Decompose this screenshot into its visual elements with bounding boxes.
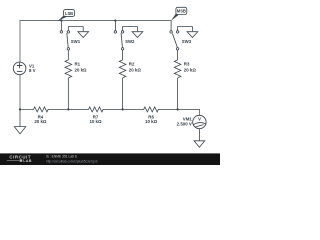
wire R4 to node B — [48, 108, 68, 110]
svg-text:LSB: LSB — [65, 11, 73, 16]
node flag LSB — [58, 10, 75, 21]
svg-text:rb : ENME 351 Lab 6: rb : ENME 351 Lab 6 — [46, 155, 77, 159]
V1 labels — [29, 63, 36, 73]
svg-text:20 kΩ: 20 kΩ — [75, 68, 88, 73]
R2 labels — [129, 62, 142, 73]
switch SW1 — [60, 21, 88, 60]
svg-text:SW2: SW2 — [125, 39, 135, 44]
footer bar — [0, 153, 220, 165]
ground (left) — [14, 109, 25, 133]
switch SW2 — [114, 21, 143, 60]
R6 labels — [145, 114, 158, 124]
svg-text:8 V: 8 V — [29, 68, 36, 73]
resistor R1 — [65, 60, 72, 110]
wire top rail — [20, 20, 171, 22]
wire V1 top — [19, 21, 21, 63]
VM1 labels — [177, 117, 193, 127]
ground (under VM1) — [194, 129, 205, 148]
svg-text:LAB: LAB — [23, 159, 32, 163]
resistor R4 — [34, 107, 49, 112]
wire R7 to node C — [103, 108, 122, 110]
wire R6 to node D — [158, 108, 177, 110]
junction dot (rail / SW2) — [114, 19, 116, 21]
voltmeter VM1 — [193, 115, 206, 128]
svg-text:2.500 V: 2.500 V — [177, 121, 192, 126]
R1 labels — [75, 62, 88, 73]
switch SW3 — [170, 21, 198, 60]
svg-text:SW1: SW1 — [71, 39, 81, 44]
svg-text:V: V — [198, 116, 201, 121]
wire V1 bottom — [19, 75, 21, 110]
svg-text:20 kΩ: 20 kΩ — [184, 68, 197, 73]
junction dot node D (bottom rail / R3) — [176, 108, 178, 110]
svg-text:R3: R3 — [184, 62, 190, 67]
R7 labels — [89, 114, 102, 124]
svg-text:SW3: SW3 — [182, 39, 192, 44]
svg-text:R2: R2 — [129, 62, 135, 67]
junction dot (bottom rail / V1) — [19, 108, 21, 110]
junction dot node A (rail / SW1) — [60, 19, 62, 21]
voltage source V1 — [13, 62, 26, 75]
svg-text:10 kΩ: 10 kΩ — [89, 119, 102, 124]
R4 labels — [34, 114, 47, 124]
resistor R3 — [174, 60, 181, 110]
svg-text:http://circuitlab.com/c/pkab5c: http://circuitlab.com/c/pkab5c3e7gxb — [46, 159, 98, 163]
canvas background — [0, 0, 220, 165]
resistor R7 — [89, 107, 104, 112]
svg-text:MSB: MSB — [177, 9, 186, 14]
wire node D to VM1 — [178, 109, 200, 115]
node flag MSB — [171, 7, 187, 21]
junction dot node B (bottom rail / R1) — [67, 108, 69, 110]
footer logo LAB row — [7, 159, 32, 163]
svg-text:20 kΩ: 20 kΩ — [34, 119, 47, 124]
R3 labels — [184, 62, 197, 73]
svg-text:10 kΩ: 10 kΩ — [145, 119, 158, 124]
svg-text:R1: R1 — [75, 62, 81, 67]
resistor R6 — [144, 107, 159, 112]
wire bottom rail left to R4 — [20, 108, 34, 110]
junction dot node C (bottom rail / R2) — [121, 108, 123, 110]
resistor R2 — [119, 60, 126, 110]
wire node B to R7 — [68, 108, 88, 110]
svg-text:20 kΩ: 20 kΩ — [129, 68, 142, 73]
wire node C to R6 — [123, 108, 144, 110]
